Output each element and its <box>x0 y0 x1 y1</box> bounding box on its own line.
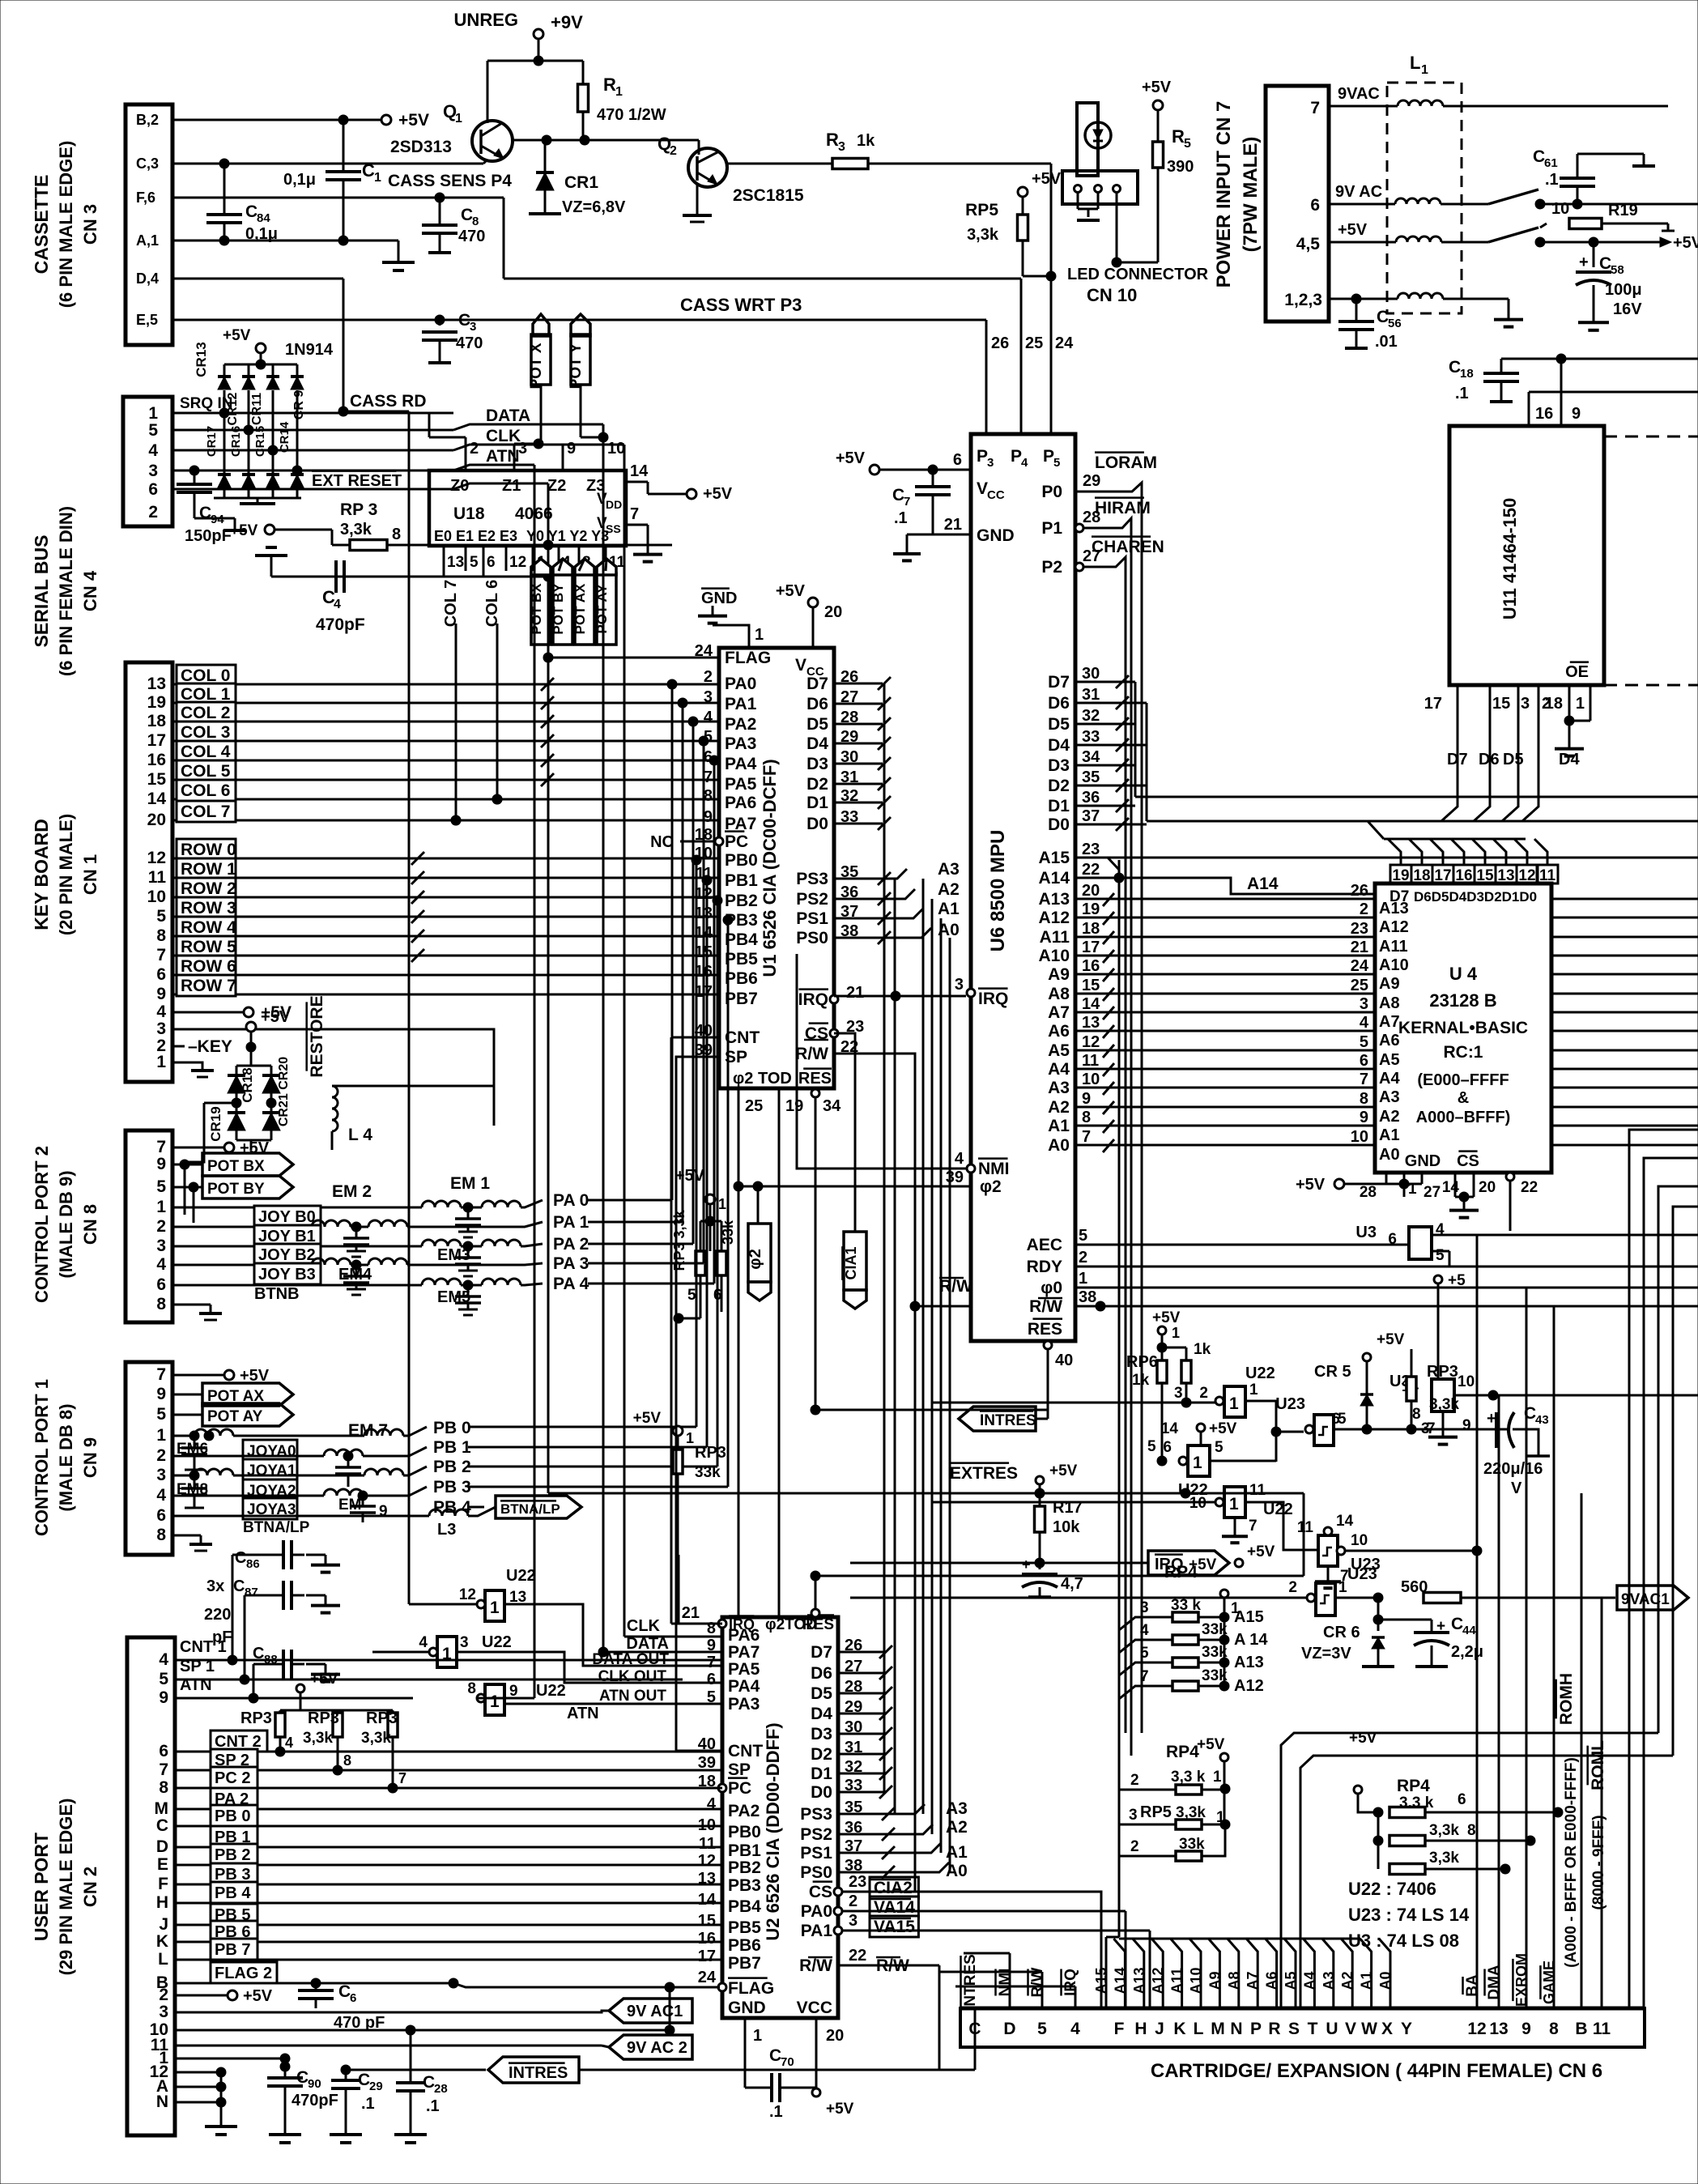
flag POT BY <box>172 1164 293 1223</box>
svg-text:P: P <box>1043 447 1054 466</box>
capacitor C8 <box>422 198 485 253</box>
wire E,5 cass wrt <box>172 315 445 325</box>
svg-text:21: 21 <box>1351 939 1368 956</box>
svg-text:6: 6 <box>350 1991 356 2005</box>
svg-text:2: 2 <box>1130 1838 1139 1855</box>
svg-text:PB5: PB5 <box>725 950 758 969</box>
wire FLAG2 <box>175 1962 720 1988</box>
svg-text:+5V: +5V <box>1049 1462 1078 1479</box>
svg-text:C: C <box>461 206 473 224</box>
svg-text:(20 PIN MALE): (20 PIN MALE) <box>56 814 76 935</box>
gate U23c schmitt <box>1297 1513 1482 1588</box>
svg-text:P0: P0 <box>1041 483 1062 501</box>
svg-text:PA1: PA1 <box>801 1922 833 1940</box>
wire Q2 collector R3 <box>727 163 832 165</box>
connector CN9 control port 1 <box>126 1362 172 1555</box>
connector CN1 keyboard <box>126 662 172 1082</box>
wire CIA2 CS <box>842 1891 1101 1893</box>
svg-text:.01: .01 <box>1375 333 1398 351</box>
flag INTRES mid <box>959 1407 1048 1431</box>
svg-text:1: 1 <box>490 1599 500 1617</box>
svg-text:21: 21 <box>944 516 962 534</box>
svg-text:4: 4 <box>1140 1622 1149 1639</box>
wire P2 CHAREN <box>1075 537 1164 1733</box>
U2 GND C70 VCC <box>745 2018 854 2121</box>
svg-text:COL 7: COL 7 <box>181 803 230 821</box>
svg-text:V: V <box>1511 1479 1522 1497</box>
U18 pin9 wire <box>563 440 576 470</box>
svg-text:8: 8 <box>1549 2020 1559 2038</box>
svg-text:9V AC: 9V AC <box>1335 183 1382 201</box>
svg-text:D6: D6 <box>811 1664 832 1683</box>
svg-text:C: C <box>892 486 904 504</box>
label KEY BOARD rotated <box>31 814 100 935</box>
svg-text:NMI: NMI <box>978 1160 1010 1178</box>
svg-text:11: 11 <box>1297 1519 1314 1536</box>
svg-text:GND: GND <box>977 526 1015 545</box>
svg-text:7: 7 <box>1360 1071 1368 1088</box>
svg-text:19: 19 <box>1082 900 1100 918</box>
svg-text:(MALE DB 8): (MALE DB 8) <box>56 1403 76 1511</box>
svg-text:PS0: PS0 <box>796 929 828 947</box>
svg-text:(MALE DB 9): (MALE DB 9) <box>56 1170 76 1278</box>
wire ROW0-ROW7 bus <box>172 839 719 996</box>
resistor RP3 c43 <box>1406 1349 1459 1437</box>
svg-text:CLK OUT: CLK OUT <box>598 1668 667 1685</box>
svg-text:5: 5 <box>159 1670 168 1688</box>
svg-text:V: V <box>1345 2020 1356 2038</box>
U18 pin2 wire <box>429 413 479 470</box>
wire A,1 gnd <box>172 236 415 270</box>
svg-text:11: 11 <box>1082 1052 1099 1070</box>
svg-text:7: 7 <box>156 1138 166 1156</box>
svg-text:90: 90 <box>308 2077 321 2091</box>
wire +5V userport serial <box>296 1671 338 1710</box>
wire NMI to cartridge <box>964 1953 1010 2008</box>
svg-text:7: 7 <box>159 1760 168 1779</box>
svg-text:ROML: ROML <box>1589 1740 1607 1790</box>
svg-text:DATA: DATA <box>486 407 530 425</box>
svg-text:PS1: PS1 <box>796 909 828 928</box>
svg-text:CR15: CR15 <box>253 426 267 457</box>
wire A13-A0 to U4 <box>1119 899 1375 1145</box>
svg-text:POT AY: POT AY <box>207 1408 263 1425</box>
svg-text:(A000 - BFFF OR E000-FFFF): (A000 - BFFF OR E000-FFFF) <box>1563 1757 1580 1968</box>
svg-text:+5V: +5V <box>1142 79 1172 96</box>
wire U23 out 560 <box>1335 1578 1615 1603</box>
svg-text:16: 16 <box>1535 405 1553 423</box>
CN9 pin8 gnd <box>172 1535 212 1551</box>
svg-text:84: 84 <box>257 211 270 225</box>
svg-text:R19: R19 <box>1608 202 1638 219</box>
svg-text:17: 17 <box>147 731 166 750</box>
wire U1 IRQ to U6 <box>834 991 966 1001</box>
svg-text:1: 1 <box>1213 1769 1222 1786</box>
serial CLK row <box>172 427 624 455</box>
svg-text:.1: .1 <box>426 2097 440 2115</box>
svg-text:1k: 1k <box>1194 1341 1211 1358</box>
svg-text:CN 4: CN 4 <box>80 570 100 611</box>
svg-text:+5V: +5V <box>1189 1556 1217 1573</box>
label 8000-9FFF ROML <box>1588 1740 1607 1910</box>
gate U3b <box>1389 1272 1698 1445</box>
svg-text:P2: P2 <box>1041 558 1062 577</box>
svg-text:+5V: +5V <box>243 1987 273 2005</box>
svg-text:R/W: R/W <box>1029 1297 1062 1316</box>
svg-text:JOY B2: JOY B2 <box>258 1246 316 1264</box>
svg-text:13: 13 <box>1082 1014 1100 1032</box>
svg-text:U23 : 74 LS 14: U23 : 74 LS 14 <box>1348 1905 1470 1925</box>
svg-text:2SD313: 2SD313 <box>390 138 452 156</box>
IC U11 41464 box <box>1449 426 1604 685</box>
svg-text:U1 6526 CIA (DC00-DCFF): U1 6526 CIA (DC00-DCFF) <box>760 759 780 977</box>
svg-text:SERIAL BUS: SERIAL BUS <box>31 535 52 648</box>
svg-text:–KEY: –KEY <box>188 1037 232 1056</box>
svg-text:Z1: Z1 <box>502 477 521 495</box>
capacitor C43 <box>1483 1404 1550 1497</box>
U18 pin14 +5V <box>626 462 733 503</box>
svg-text:CIA1: CIA1 <box>843 1246 859 1279</box>
wire JOYB3 PA3 <box>172 1254 704 1295</box>
svg-text:H: H <box>156 1893 168 1912</box>
svg-text:15: 15 <box>698 1912 716 1930</box>
svg-text:CHAREN: CHAREN <box>1092 538 1164 556</box>
svg-text:PA6: PA6 <box>725 794 756 812</box>
svg-text:C: C <box>156 1816 168 1835</box>
wire COL0-COL7 bus <box>172 665 719 825</box>
capacitor C56 <box>1338 299 1402 351</box>
svg-text:PB3: PB3 <box>728 1876 761 1895</box>
wire cartridge address verticals <box>1093 1966 1394 2008</box>
U1 left pin labels <box>695 642 771 1066</box>
resistor network RP5 <box>1119 1736 1230 1861</box>
svg-text:GAME: GAME <box>1541 1960 1557 2004</box>
svg-text:19: 19 <box>1392 867 1409 884</box>
label CASSETTE rotated <box>31 141 100 309</box>
svg-text:4: 4 <box>285 1735 293 1751</box>
svg-text:AEC: AEC <box>1027 1236 1062 1254</box>
svg-text:43: 43 <box>1535 1413 1549 1427</box>
svg-text:PA2: PA2 <box>725 715 756 734</box>
svg-text:17: 17 <box>1434 867 1451 884</box>
svg-text:44: 44 <box>1462 1624 1476 1637</box>
svg-text:+: + <box>1579 253 1589 271</box>
svg-text:7: 7 <box>156 1365 166 1384</box>
wire U2 D stubs <box>838 1645 892 1799</box>
svg-text:EM 2: EM 2 <box>332 1182 372 1201</box>
svg-text:A12: A12 <box>1038 909 1070 927</box>
label CONTROL PORT 2 rotated <box>32 1146 100 1303</box>
svg-text:9: 9 <box>156 985 166 1003</box>
svg-text:4,5: 4,5 <box>1296 235 1321 253</box>
svg-text:U22: U22 <box>1245 1364 1275 1382</box>
connector CN2 user port <box>127 1637 175 2135</box>
svg-text:8: 8 <box>156 926 166 945</box>
svg-text:C: C <box>1451 1615 1463 1633</box>
wire EXT RESET drop <box>548 483 852 1493</box>
svg-text:6: 6 <box>1163 1439 1172 1456</box>
svg-text:0,1μ: 0,1μ <box>283 171 316 189</box>
filter coil 45 <box>1329 221 1488 242</box>
svg-text:U3 : 74 LS 08: U3 : 74 LS 08 <box>1348 1931 1459 1951</box>
U2 left pin labels <box>698 1620 832 2017</box>
label EM2 <box>332 1182 372 1201</box>
svg-text:D6: D6 <box>1048 694 1070 713</box>
svg-text:L: L <box>158 1950 168 1969</box>
svg-text:1: 1 <box>455 112 462 126</box>
svg-text:A10: A10 <box>1379 956 1409 974</box>
svg-text:24: 24 <box>698 1969 717 1986</box>
svg-text:3,3k: 3,3k <box>1429 1850 1459 1867</box>
flag phi2 <box>747 1186 771 1301</box>
gate U23b schmitt <box>850 1565 1377 1616</box>
svg-text:ATN OUT: ATN OUT <box>599 1688 666 1705</box>
svg-text:1: 1 <box>490 1692 500 1711</box>
svg-text:PC: PC <box>728 1779 751 1798</box>
capacitor C88 <box>253 1645 340 1682</box>
svg-text:F: F <box>1114 2020 1125 2038</box>
svg-text:COL 6: COL 6 <box>483 580 501 628</box>
wire U6 RES pin40 <box>1044 1341 1073 1410</box>
svg-text:+5: +5 <box>1448 1272 1466 1289</box>
svg-text:U22: U22 <box>482 1633 512 1651</box>
svg-text:.1: .1 <box>361 2095 375 2113</box>
svg-text:1: 1 <box>1079 1270 1087 1288</box>
wire D,4 CASS RD <box>172 279 427 1604</box>
svg-text:B,2: B,2 <box>136 112 159 128</box>
svg-text:CR16: CR16 <box>229 426 243 457</box>
svg-text:38: 38 <box>1079 1288 1096 1306</box>
svg-text:CN 3: CN 3 <box>80 204 100 245</box>
svg-text:3,3k: 3,3k <box>361 1730 391 1747</box>
svg-text:D0: D0 <box>811 1783 832 1802</box>
svg-text:HIRAM: HIRAM <box>1095 499 1151 517</box>
svg-text:+5V: +5V <box>1032 170 1062 188</box>
svg-text:6: 6 <box>148 480 158 499</box>
connector CN8 control port 2 <box>126 1130 172 1322</box>
svg-text:12: 12 <box>698 1852 716 1870</box>
svg-text:15: 15 <box>147 770 167 789</box>
svg-text:JOY B0: JOY B0 <box>258 1208 316 1226</box>
svg-text:3: 3 <box>156 1020 166 1038</box>
svg-text:L: L <box>1410 53 1420 73</box>
svg-text:COL 2: COL 2 <box>181 704 230 722</box>
svg-text:3: 3 <box>987 456 994 470</box>
svg-text:+5V: +5V <box>1209 1420 1237 1437</box>
svg-text:C: C <box>245 202 257 221</box>
svg-text:8: 8 <box>704 787 713 805</box>
svg-text:ROW 2: ROW 2 <box>181 879 236 898</box>
svg-text:PB4: PB4 <box>728 1897 761 1916</box>
svg-text:A4: A4 <box>1048 1060 1070 1079</box>
svg-text:ROW 7: ROW 7 <box>181 977 236 995</box>
svg-text:16: 16 <box>147 751 166 769</box>
wire bottom-left Ls <box>915 1306 1150 2070</box>
svg-text:18: 18 <box>1413 867 1430 884</box>
svg-text:4: 4 <box>156 1255 166 1274</box>
svg-text:PB6: PB6 <box>728 1936 761 1955</box>
capacitor C87 <box>204 1577 340 1646</box>
svg-text:3: 3 <box>1174 1385 1183 1402</box>
wire B,2 +5V <box>172 111 429 130</box>
svg-text:10: 10 <box>607 440 625 458</box>
svg-text:15: 15 <box>1476 867 1494 884</box>
label POWER INPUT CN7 rotated <box>1213 101 1262 288</box>
wire data bus verticals <box>884 683 895 1814</box>
restore cluster tie <box>186 1103 251 1162</box>
svg-text:PB4: PB4 <box>725 930 758 949</box>
svg-text:L 4: L 4 <box>348 1126 372 1144</box>
svg-text:R/W: R/W <box>799 1956 832 1975</box>
wire A14 label <box>1247 875 1279 893</box>
svg-text:28: 28 <box>434 2082 448 2096</box>
svg-text:GND: GND <box>728 1999 766 2017</box>
svg-text:23: 23 <box>849 1873 866 1891</box>
svg-text:3: 3 <box>156 1237 166 1255</box>
svg-text:4: 4 <box>419 1634 428 1651</box>
svg-text:3,3 k: 3,3 k <box>1171 1769 1206 1786</box>
wire JOYB1 PA1 <box>172 1213 683 1257</box>
svg-text:7: 7 <box>704 768 713 786</box>
resistor RP6 1k <box>1126 1309 1211 1466</box>
svg-text:DMA: DMA <box>1486 1965 1503 2000</box>
svg-text:A7: A7 <box>1048 1003 1070 1022</box>
svg-text:5: 5 <box>470 554 479 571</box>
label USER PORT rotated <box>31 1799 100 1976</box>
svg-text:INTRES: INTRES <box>980 1412 1036 1429</box>
svg-text:+5V: +5V <box>675 1167 705 1185</box>
svg-text:CONTROL PORT 2: CONTROL PORT 2 <box>32 1146 52 1303</box>
wire cass wrt P3 <box>440 295 986 434</box>
U1 bottom pins <box>738 1088 841 1617</box>
wire cartridge ctrl verticals <box>961 1953 1079 2070</box>
restore +5V <box>246 1008 291 1066</box>
svg-text:V: V <box>795 656 806 675</box>
flag POT AY <box>172 1403 293 1426</box>
svg-text:ATN: ATN <box>567 1705 599 1722</box>
svg-text:A11: A11 <box>1040 928 1070 947</box>
svg-text:15: 15 <box>1492 695 1510 713</box>
svg-text:C: C <box>199 504 211 522</box>
svg-text:EM4: EM4 <box>338 1266 372 1284</box>
svg-text:EXTRES: EXTRES <box>950 1464 1018 1483</box>
svg-text:VCC: VCC <box>797 1999 832 2017</box>
svg-text:M: M <box>1211 2020 1225 2038</box>
svg-text:470: 470 <box>458 228 485 245</box>
svg-text:10: 10 <box>1351 1128 1368 1146</box>
wire right columns <box>1477 1235 1602 2008</box>
capacitor C6 <box>298 1982 385 2032</box>
resistor R19 <box>1540 200 1675 231</box>
svg-text:C: C <box>769 2046 781 2065</box>
svg-text:7: 7 <box>707 1654 716 1671</box>
svg-text:PS3: PS3 <box>796 870 828 888</box>
svg-text:12: 12 <box>1082 1033 1100 1051</box>
svg-text:C: C <box>1449 358 1461 377</box>
U11 pin9 wire <box>1561 359 1581 426</box>
svg-text:+5V: +5V <box>703 485 733 503</box>
connector CN3 cassette <box>126 104 172 345</box>
resistor network RP4 A15-A12 <box>1119 1556 1268 1699</box>
svg-text:COL 4: COL 4 <box>181 743 231 761</box>
svg-text:5: 5 <box>156 1405 166 1424</box>
svg-text:2: 2 <box>1130 1772 1139 1789</box>
U11 pin16 wire <box>1529 392 1698 426</box>
CN8 pin7 +5V <box>172 1139 270 1157</box>
svg-text:10k: 10k <box>1053 1518 1080 1536</box>
svg-text:37: 37 <box>1082 807 1100 825</box>
U1 D7-D0 stubs <box>834 677 891 830</box>
svg-text:U6 8500 MPU: U6 8500 MPU <box>987 830 1009 952</box>
svg-text:A5: A5 <box>1379 1051 1400 1069</box>
svg-text:1: 1 <box>148 404 158 423</box>
svg-text:2: 2 <box>849 1892 858 1910</box>
IC U2 6526 CIA box <box>722 1617 838 2018</box>
svg-text:POT BX: POT BX <box>207 1158 265 1175</box>
svg-text:R/W: R/W <box>939 1277 972 1296</box>
svg-text:E0 E1 E2 E3: E0 E1 E2 E3 <box>434 528 517 544</box>
svg-text:16: 16 <box>1082 957 1100 975</box>
svg-text:R: R <box>1268 2020 1280 2038</box>
svg-text:3: 3 <box>955 976 964 994</box>
svg-text:POT Y: POT Y <box>568 343 585 389</box>
svg-text:PS3: PS3 <box>800 1805 832 1824</box>
svg-text:A11: A11 <box>1379 938 1408 956</box>
svg-text:USER PORT: USER PORT <box>31 1833 52 1941</box>
svg-text:7: 7 <box>1310 99 1320 117</box>
svg-text:56: 56 <box>1388 317 1402 330</box>
svg-text:4: 4 <box>1360 1014 1369 1032</box>
svg-text:PC 2: PC 2 <box>215 1769 250 1787</box>
svg-text:LED CONNECTOR: LED CONNECTOR <box>1067 266 1209 283</box>
resistor R5 <box>1117 79 1194 262</box>
svg-text:2: 2 <box>156 1446 166 1465</box>
svg-text:PA 3: PA 3 <box>553 1254 589 1273</box>
svg-text:14: 14 <box>1161 1420 1179 1437</box>
svg-text:PA5: PA5 <box>725 775 757 794</box>
svg-text:8: 8 <box>156 1526 166 1544</box>
wire JOYA0 PB0 <box>172 1419 696 1461</box>
wire A3-A0 verticals <box>923 879 950 1872</box>
svg-text:N: N <box>156 2092 168 2111</box>
svg-text:CASS SENS P4: CASS SENS P4 <box>388 172 512 190</box>
svg-text:CNT: CNT <box>725 1028 760 1047</box>
serial EXT RESET row <box>172 471 548 490</box>
svg-text:9VAC: 9VAC <box>1338 85 1380 103</box>
svg-text:C: C <box>235 1549 246 1567</box>
svg-text:A 14: A 14 <box>1234 1631 1268 1649</box>
LED connector CN10 <box>1062 103 1209 305</box>
svg-text:CS: CS <box>809 1883 832 1901</box>
svg-text:33k: 33k <box>1202 1667 1228 1684</box>
svg-text:1: 1 <box>755 626 764 644</box>
wire PB risers CN9 <box>692 855 733 1487</box>
svg-text:W: W <box>1361 2020 1377 2038</box>
svg-text:U22: U22 <box>506 1567 536 1585</box>
svg-text:8: 8 <box>707 1620 716 1637</box>
svg-text:D2: D2 <box>1048 777 1070 795</box>
svg-text:1N914: 1N914 <box>285 341 334 359</box>
svg-text:A2: A2 <box>1379 1108 1400 1126</box>
transistor Q2 2SC1815 <box>657 134 804 205</box>
gate U22 atn <box>467 1680 722 1715</box>
svg-text:ROW 4: ROW 4 <box>181 918 236 937</box>
connector CN6 cartridge bar <box>960 2008 1645 2047</box>
svg-text:PA3: PA3 <box>725 734 756 753</box>
svg-text:J: J <box>1155 2020 1164 2038</box>
wire nested bends right <box>1281 1130 1698 2008</box>
wire INTRES to cartridge <box>939 2069 975 2071</box>
